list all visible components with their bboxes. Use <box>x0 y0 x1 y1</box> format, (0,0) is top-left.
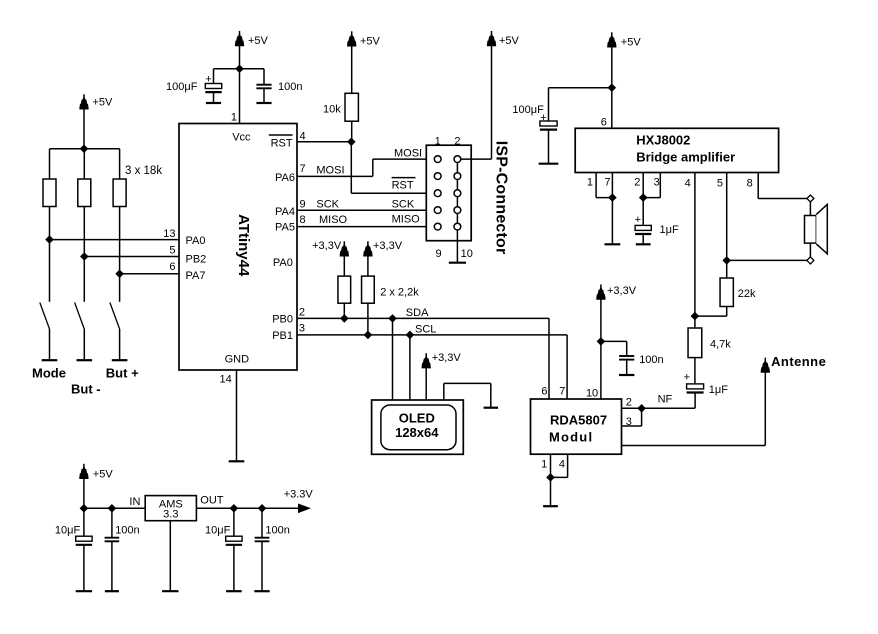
svg-text:MISO: MISO <box>319 214 348 226</box>
svg-text:2: 2 <box>454 135 460 147</box>
svg-text:2 x 2,2k: 2 x 2,2k <box>380 286 419 298</box>
svg-text:+3,3V: +3,3V <box>607 285 637 297</box>
svg-text:NF: NF <box>658 393 673 405</box>
svg-text:1: 1 <box>541 459 547 471</box>
svg-text:3: 3 <box>299 323 305 335</box>
svg-text:IN: IN <box>129 496 140 508</box>
svg-text:10: 10 <box>461 248 473 260</box>
svg-text:OUT: OUT <box>200 495 224 507</box>
svg-text:14: 14 <box>220 374 232 386</box>
svg-text:+5V: +5V <box>93 469 114 481</box>
svg-text:MOSI: MOSI <box>394 147 422 159</box>
svg-text:Bridge amplifier: Bridge amplifier <box>636 149 735 164</box>
svg-text:PA0: PA0 <box>186 235 206 247</box>
svg-text:8: 8 <box>300 214 306 226</box>
svg-text:3: 3 <box>626 416 632 428</box>
svg-text:But +: But + <box>106 366 139 381</box>
svg-text:9: 9 <box>435 248 441 260</box>
svg-text:5: 5 <box>169 245 175 257</box>
svg-text:3 x 18k: 3 x 18k <box>125 165 162 177</box>
svg-text:HXJ8002: HXJ8002 <box>636 132 690 147</box>
svg-text:SCK: SCK <box>316 199 339 211</box>
svg-text:SDA: SDA <box>406 307 429 319</box>
svg-text:+5V: +5V <box>248 35 269 47</box>
svg-text:100n: 100n <box>115 525 139 537</box>
svg-text:10: 10 <box>586 388 598 400</box>
svg-text:ISP-Connector: ISP-Connector <box>493 141 510 255</box>
svg-text:+5V: +5V <box>621 37 642 49</box>
svg-text:100n: 100n <box>265 525 289 537</box>
svg-text:100n: 100n <box>639 354 663 366</box>
svg-text:1: 1 <box>231 112 237 124</box>
svg-text:+: + <box>684 372 690 384</box>
svg-text:GND: GND <box>225 354 250 366</box>
svg-text:7: 7 <box>559 385 565 397</box>
svg-text:OLED: OLED <box>399 410 435 425</box>
svg-text:1μF: 1μF <box>709 384 728 396</box>
svg-text:PB1: PB1 <box>272 330 293 342</box>
svg-text:1: 1 <box>587 176 593 188</box>
svg-text:4: 4 <box>685 178 691 190</box>
svg-text:PA4: PA4 <box>275 206 295 218</box>
svg-text:7: 7 <box>604 176 610 188</box>
svg-text:9: 9 <box>300 199 306 211</box>
svg-text:13: 13 <box>163 228 175 240</box>
svg-text:PA5: PA5 <box>275 222 295 234</box>
svg-text:5: 5 <box>717 178 723 190</box>
svg-text:SCK: SCK <box>392 199 415 211</box>
svg-text:PA6: PA6 <box>275 172 295 184</box>
svg-text:10μF: 10μF <box>205 525 231 537</box>
svg-text:SCL: SCL <box>415 323 436 335</box>
svg-text:+3.3V: +3.3V <box>284 489 314 501</box>
svg-text:4,7k: 4,7k <box>710 338 731 350</box>
svg-text:PB0: PB0 <box>272 314 293 326</box>
svg-text:8: 8 <box>747 178 753 190</box>
svg-text:100μF: 100μF <box>166 81 198 93</box>
svg-text:3: 3 <box>654 176 660 188</box>
svg-text:7: 7 <box>300 163 306 175</box>
svg-text:4: 4 <box>300 130 306 142</box>
svg-text:+: + <box>540 112 546 124</box>
svg-text:Vcc: Vcc <box>232 132 251 144</box>
svg-text:22k: 22k <box>738 288 756 300</box>
svg-text:Mode: Mode <box>32 366 66 381</box>
svg-text:100n: 100n <box>278 81 302 93</box>
svg-text:6: 6 <box>601 117 607 129</box>
svg-text:PA0: PA0 <box>273 257 293 269</box>
svg-text:But -: But - <box>71 382 101 397</box>
svg-text:Modul: Modul <box>549 430 593 445</box>
svg-text:128x64: 128x64 <box>395 425 439 440</box>
svg-text:RDA5807: RDA5807 <box>550 412 607 427</box>
svg-text:1μF: 1μF <box>660 224 679 236</box>
svg-text:+5V: +5V <box>499 35 520 47</box>
svg-text:Antenne: Antenne <box>771 354 826 369</box>
svg-text:+3,3V: +3,3V <box>432 352 462 364</box>
svg-text:ATtiny44: ATtiny44 <box>235 214 252 277</box>
svg-text:10μF: 10μF <box>55 525 81 537</box>
svg-text:+: + <box>635 214 641 226</box>
svg-text:+3,3V: +3,3V <box>373 240 403 252</box>
svg-text:+3,3V: +3,3V <box>312 240 342 252</box>
svg-text:10k: 10k <box>323 104 341 116</box>
svg-text:PB2: PB2 <box>186 254 207 266</box>
svg-text:4: 4 <box>559 459 565 471</box>
svg-text:RST: RST <box>392 180 414 192</box>
svg-text:3.3: 3.3 <box>163 508 178 520</box>
svg-text:MOSI: MOSI <box>316 165 344 177</box>
svg-text:2: 2 <box>634 176 640 188</box>
svg-text:2: 2 <box>299 306 305 318</box>
svg-text:6: 6 <box>541 385 547 397</box>
svg-text:1: 1 <box>435 135 441 147</box>
svg-text:2: 2 <box>626 397 632 409</box>
svg-text:6: 6 <box>169 261 175 273</box>
svg-text:MISO: MISO <box>392 214 421 226</box>
svg-text:RST: RST <box>271 137 293 149</box>
svg-text:+5V: +5V <box>93 97 114 109</box>
svg-text:+: + <box>205 74 211 86</box>
svg-text:PA7: PA7 <box>186 270 206 282</box>
svg-text:+5V: +5V <box>360 36 381 48</box>
